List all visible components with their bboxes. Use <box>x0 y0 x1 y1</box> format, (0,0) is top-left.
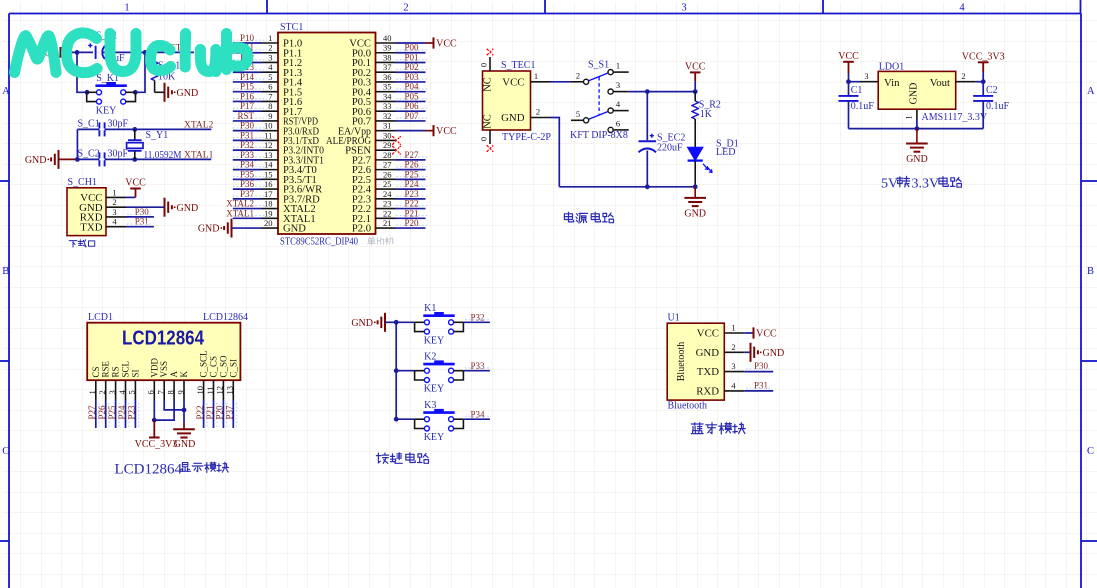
wire net P21 <box>213 400 215 428</box>
svg-text:1: 1 <box>731 323 735 333</box>
ground reset <box>164 83 166 102</box>
junction rail LED <box>693 184 698 189</box>
svg-text:20: 20 <box>264 218 273 228</box>
svg-text:GND: GND <box>177 203 199 214</box>
svg-text:C_CS: C_CS <box>209 356 219 378</box>
svg-text:P2.0: P2.0 <box>352 224 371 235</box>
svg-text:VCC: VCC <box>838 51 859 62</box>
bottom rail power circuit <box>559 186 695 188</box>
wire net P03 <box>396 81 426 83</box>
svg-text:TYPE-C-2P: TYPE-C-2P <box>502 132 551 143</box>
caption bluetooth module <box>691 423 703 434</box>
svg-text:4: 4 <box>959 3 965 14</box>
pin 31 EA/Vpp <box>376 130 396 132</box>
svg-text:P30: P30 <box>135 207 150 217</box>
wire net P10 <box>233 42 262 44</box>
svg-text:A: A <box>169 371 179 378</box>
pin 1 gnd ldo <box>916 109 918 119</box>
svg-text:P22: P22 <box>195 405 205 419</box>
switch contact 6 <box>608 127 613 132</box>
pin 3 wire S_S1 <box>613 91 629 93</box>
svg-text:P10: P10 <box>240 33 255 43</box>
svg-text:35: 35 <box>383 82 392 92</box>
svg-text:KEY: KEY <box>96 105 117 116</box>
svg-text:VCC: VCC <box>697 328 719 340</box>
svg-text:P24: P24 <box>117 405 127 420</box>
svg-text:3: 3 <box>864 71 868 81</box>
svg-text:VCC: VCC <box>685 61 706 72</box>
pin 3 TXD bluetooth <box>724 371 744 373</box>
svg-text:3: 3 <box>681 3 686 14</box>
wire net P02 <box>396 71 426 73</box>
svg-text:33: 33 <box>383 101 392 111</box>
svg-text:Bluetooth: Bluetooth <box>676 342 687 381</box>
svg-text:XTAL2: XTAL2 <box>184 121 214 131</box>
pin 4 P1.3 <box>262 71 279 73</box>
svg-text:P32: P32 <box>240 140 254 150</box>
svg-text:1: 1 <box>534 71 538 81</box>
svg-text:VCC_3V3: VCC_3V3 <box>135 439 178 450</box>
sheet border frame <box>9 13 1081 15</box>
pin 32 P0.7 <box>376 120 396 122</box>
svg-text:P21: P21 <box>205 405 215 419</box>
svg-text:19: 19 <box>264 208 273 218</box>
svg-text:2: 2 <box>112 197 116 207</box>
svg-text:RSE: RSE <box>101 360 111 377</box>
svg-text:30pF: 30pF <box>108 118 129 129</box>
pin 37 P0.2 <box>376 71 396 73</box>
svg-text:P02: P02 <box>405 62 419 72</box>
svg-text:30: 30 <box>383 130 392 140</box>
svg-text:P31: P31 <box>754 380 768 390</box>
svg-text:K1: K1 <box>424 303 436 314</box>
pin 4 wire S_CH1 <box>106 226 126 228</box>
svg-text:S_Y1: S_Y1 <box>146 130 169 141</box>
capacitor C2 0.1uF <box>982 82 984 96</box>
pin 3 wire S_CH1 <box>106 216 126 218</box>
pin 16 P3.6/WR <box>262 188 279 190</box>
svg-text:220uF: 220uF <box>657 143 683 154</box>
module U1 bluetooth body <box>667 323 724 400</box>
push button K1 <box>423 314 454 317</box>
wire xtal1 row <box>77 158 211 160</box>
svg-text:GND: GND <box>501 112 525 124</box>
junction key K2 <box>394 368 399 373</box>
ground power circuit <box>694 187 696 198</box>
wire net P20 <box>222 400 224 428</box>
pin 3 P1.2 <box>262 61 279 63</box>
svg-text:37: 37 <box>383 62 392 72</box>
capacitor S_E1 10uF <box>93 47 98 58</box>
wire K down <box>183 400 185 423</box>
svg-text:P32: P32 <box>471 313 485 323</box>
svg-text:Bluetooth: Bluetooth <box>668 400 707 411</box>
svg-text:P17: P17 <box>240 101 255 111</box>
svg-text:5: 5 <box>268 72 272 82</box>
pin 35 P0.4 <box>376 91 396 93</box>
svg-text:KEY: KEY <box>424 335 445 346</box>
svg-text:3: 3 <box>616 80 620 90</box>
wire VCC to RST <box>61 51 195 53</box>
caption download port <box>69 241 77 248</box>
svg-text:S_C1: S_C1 <box>78 118 100 129</box>
svg-text:1: 1 <box>112 187 116 197</box>
svg-text:3: 3 <box>731 361 735 371</box>
junction rail EC2 <box>645 184 650 189</box>
wire net P05 <box>396 100 426 102</box>
junction xtal1-left <box>75 157 80 162</box>
svg-text:P24: P24 <box>405 179 420 189</box>
svg-text:11: 11 <box>205 386 215 394</box>
crystal S_Y1 11.0592M <box>134 129 136 140</box>
push button K3 <box>423 411 454 414</box>
pin 1 VCC wire typec <box>531 81 551 83</box>
svg-text:3: 3 <box>268 52 272 62</box>
pin 2 GND bluetooth <box>724 351 744 353</box>
svg-text:XTAL1: XTAL1 <box>184 151 214 161</box>
wire net P32 <box>233 149 262 151</box>
wire net P21 <box>396 217 426 219</box>
push button K2 <box>423 363 454 366</box>
push button S_K1 KEY <box>95 84 126 87</box>
wire net P16 <box>233 100 262 102</box>
svg-text:GND: GND <box>684 208 706 219</box>
junction VCC node <box>693 89 698 94</box>
svg-text:S_S1: S_S1 <box>588 60 609 71</box>
svg-text:A: A <box>2 86 10 97</box>
svg-text:2: 2 <box>97 390 107 394</box>
power port VCC bluetooth <box>744 332 753 334</box>
svg-text:0: 0 <box>479 137 489 141</box>
power port VCC pin40 <box>396 42 426 44</box>
switch blade 5-4 <box>588 111 608 119</box>
connector S_TEC1 TYPE-C <box>483 71 531 130</box>
svg-text:B: B <box>1087 266 1094 277</box>
svg-text:0: 0 <box>479 63 489 67</box>
switch contact 2 <box>584 79 589 84</box>
svg-text:RST: RST <box>237 111 254 121</box>
wire net P24 <box>125 400 127 428</box>
svg-text:22: 22 <box>383 208 392 218</box>
wire net P34 <box>233 169 262 171</box>
wire net P31 bt <box>744 390 773 392</box>
junction xtal1 <box>132 157 137 162</box>
svg-text:1K: 1K <box>700 109 713 120</box>
svg-text:P00: P00 <box>405 43 420 53</box>
wire net P25 <box>396 178 426 180</box>
switch contact 1 <box>608 70 613 75</box>
svg-text:P23: P23 <box>127 405 137 420</box>
junction C1 <box>846 79 851 84</box>
svg-text:38: 38 <box>383 52 392 62</box>
pin 26 P2.5 <box>376 178 396 180</box>
svg-text:40: 40 <box>383 33 392 43</box>
svg-text:P37: P37 <box>240 189 255 199</box>
capacitor S_EC2 220uF <box>639 140 657 142</box>
pin 27 P2.6 <box>376 169 396 171</box>
svg-text:P25: P25 <box>405 169 420 179</box>
svg-text:2: 2 <box>403 3 408 14</box>
svg-text:P34: P34 <box>471 410 486 420</box>
rail EC2 <box>646 92 648 141</box>
svg-text:2: 2 <box>731 342 735 352</box>
svg-text:6: 6 <box>268 82 272 92</box>
svg-text:P30: P30 <box>754 361 769 371</box>
wire VDD to vcc3v3 <box>153 400 155 420</box>
svg-text:P04: P04 <box>405 82 420 92</box>
wire net P14 <box>233 81 262 83</box>
svg-text:C_SI: C_SI <box>228 359 238 378</box>
svg-text:24: 24 <box>383 189 392 199</box>
svg-text:1: 1 <box>87 390 97 394</box>
svg-text:28: 28 <box>383 150 392 160</box>
svg-text:P05: P05 <box>405 91 420 101</box>
svg-text:NC: NC <box>483 114 494 129</box>
pin 2 GND wire typec <box>531 117 551 119</box>
svg-text:P37: P37 <box>225 405 235 420</box>
svg-text:C1: C1 <box>851 85 863 96</box>
switch contact 4 <box>608 108 613 113</box>
svg-text:1: 1 <box>124 3 129 14</box>
svg-text:3.3V: 3.3V <box>912 177 940 192</box>
pin 13 P3.3/INT1 <box>262 159 279 161</box>
wire net RST <box>233 120 262 122</box>
svg-text:KFT DIP-8X8: KFT DIP-8X8 <box>570 130 628 141</box>
svg-text:P20: P20 <box>215 405 225 420</box>
wire net P23 <box>396 198 426 200</box>
ground lcd <box>183 423 185 430</box>
svg-text:VCC: VCC <box>502 76 524 88</box>
svg-text:C_SCL: C_SCL <box>199 350 209 377</box>
svg-text:VCC_3V3: VCC_3V3 <box>962 51 1005 62</box>
wire net P23 <box>134 400 136 428</box>
wire vcc to vin <box>849 81 861 83</box>
junction xtal2 <box>132 127 137 132</box>
pin 14 P3.4/T0 <box>262 169 279 171</box>
wire net P37 <box>232 400 234 428</box>
svg-text:P01: P01 <box>405 52 419 62</box>
svg-text:13: 13 <box>264 150 273 160</box>
svg-text:C: C <box>1087 446 1094 457</box>
wire net P22 <box>203 400 205 428</box>
caption MCU chinese <box>368 237 376 245</box>
wire net P06 <box>396 110 426 112</box>
caption key circuit <box>376 453 388 463</box>
junction key K1 <box>394 320 399 325</box>
no-ERC marker pin29 <box>393 146 401 154</box>
wire xtal2 row <box>77 128 211 130</box>
wire net P33 <box>233 159 262 161</box>
wire net P20 <box>396 227 426 229</box>
wire reset key right drop <box>135 52 145 92</box>
svg-text:VCC: VCC <box>125 178 146 189</box>
wire net P13 <box>233 71 262 73</box>
junction VDD <box>152 418 157 423</box>
svg-text:K: K <box>179 371 189 378</box>
op-amp: none; IC U STC1 body <box>278 33 376 235</box>
svg-text:S_TEC1: S_TEC1 <box>501 60 535 71</box>
pin 38 P0.1 <box>376 61 396 63</box>
wire net P26 <box>396 169 426 171</box>
svg-text:LCD1: LCD1 <box>88 312 113 323</box>
stub pin 0 top with no-ERC <box>489 57 491 71</box>
svg-text:25: 25 <box>383 179 392 189</box>
svg-text:VDD: VDD <box>149 358 159 378</box>
svg-text:8: 8 <box>165 390 175 394</box>
key rail <box>395 322 397 419</box>
power VCC_3V3 lcd <box>153 420 155 437</box>
svg-text:P03: P03 <box>405 72 420 82</box>
pin 12 P3.2/INT0 <box>262 149 279 151</box>
svg-text:15: 15 <box>264 169 273 179</box>
svg-text:KEY: KEY <box>424 432 445 443</box>
pin 10 P3.0/RxD <box>262 130 279 132</box>
pin 15 P3.5/T1 <box>262 178 279 180</box>
svg-text:1: 1 <box>904 115 914 119</box>
svg-text:P27: P27 <box>87 405 97 420</box>
wire K3 out <box>464 418 490 420</box>
svg-text:NC: NC <box>483 77 494 92</box>
svg-text:2: 2 <box>536 107 540 117</box>
junction node reset-left <box>75 50 80 55</box>
ground MCU pin20 <box>231 219 233 238</box>
junction key K3 <box>394 417 399 422</box>
pin 28 P2.7 <box>376 159 396 161</box>
junction gnd ams <box>915 126 920 131</box>
wire net P31 <box>233 139 262 141</box>
pin 1 wire S_S1 <box>613 71 629 73</box>
pin 22 P2.1 <box>376 217 396 219</box>
power port VCC pin31 EA <box>396 130 426 132</box>
svg-text:B: B <box>2 266 9 277</box>
pin 6 wire S_S1 <box>613 129 629 131</box>
pin 17 P3.7/RD <box>262 198 279 200</box>
bottom rail ams <box>849 128 984 130</box>
svg-text:18: 18 <box>264 199 273 209</box>
switch contact 5 <box>584 118 589 123</box>
wire net XTAL1 <box>233 217 262 219</box>
svg-text:VCC: VCC <box>756 328 777 339</box>
svg-text:GND: GND <box>763 348 785 359</box>
wire net P12 <box>233 61 262 63</box>
pin 1 P1.0 <box>262 42 279 44</box>
svg-text:GND: GND <box>25 155 47 166</box>
svg-text:34: 34 <box>383 91 392 101</box>
svg-text:P27: P27 <box>405 150 420 160</box>
pin 11 P3.1/TxD <box>262 139 279 141</box>
svg-text:GND: GND <box>283 224 306 235</box>
svg-text:A: A <box>1087 86 1095 97</box>
svg-text:29: 29 <box>383 140 392 150</box>
svg-text:LCD12864: LCD12864 <box>122 328 205 350</box>
junction node reset-right <box>143 50 148 55</box>
svg-text:P23: P23 <box>405 189 420 199</box>
svg-text:6: 6 <box>146 390 156 394</box>
svg-text:0.1uF: 0.1uF <box>851 101 875 112</box>
svg-text:9: 9 <box>268 111 272 121</box>
svg-text:XTAL1: XTAL1 <box>226 208 254 218</box>
pin 1 wire S_CH1 <box>106 196 126 198</box>
stub pin 0 bottom with no-ERC <box>489 130 491 144</box>
svg-text:CS: CS <box>91 366 101 377</box>
pin 33 P0.6 <box>376 110 396 112</box>
svg-text:13: 13 <box>225 386 235 395</box>
wire to K3 <box>396 418 414 420</box>
svg-text:6: 6 <box>616 119 620 129</box>
svg-text:P06: P06 <box>405 101 420 111</box>
regulator LDO1 AMS1117 <box>878 71 956 109</box>
wire net P22 <box>396 208 426 210</box>
pin 5 wire S_S1 <box>571 119 584 121</box>
ground ams <box>916 129 918 144</box>
wire to K2 <box>396 370 414 372</box>
wire net P24 <box>396 188 426 190</box>
display LCD1 body <box>87 323 240 381</box>
pin 29 PSEN <box>376 149 396 151</box>
svg-text:P26: P26 <box>97 405 107 420</box>
junction switch out <box>645 89 650 94</box>
svg-text:1: 1 <box>616 61 620 71</box>
ground bluetooth <box>744 351 750 353</box>
svg-text:2: 2 <box>576 70 580 80</box>
pin 2 vout wire <box>956 81 976 83</box>
wire reset key left drop <box>77 52 87 92</box>
svg-text:RS: RS <box>111 366 121 377</box>
wire net P30 <box>233 130 262 132</box>
svg-text:11.0592M: 11.0592M <box>144 150 182 161</box>
wire net P00 <box>396 52 426 54</box>
svg-text:8: 8 <box>268 101 272 111</box>
pin 21 P2.0 <box>376 227 396 229</box>
svg-text:16: 16 <box>264 179 273 189</box>
svg-text:39: 39 <box>383 43 392 53</box>
svg-text:5: 5 <box>127 390 137 394</box>
svg-text:P36: P36 <box>240 179 255 189</box>
svg-text:C_SO: C_SO <box>218 355 228 378</box>
pin 30 ALE/PROG <box>376 139 396 141</box>
pin 1 VCC bluetooth <box>724 332 744 334</box>
capacitor S_C2 30pF <box>98 152 100 166</box>
svg-text:P34: P34 <box>240 160 255 170</box>
junction key-left <box>85 90 90 95</box>
svg-text:LCD12864: LCD12864 <box>203 312 248 323</box>
LED S_D1 <box>688 147 703 160</box>
svg-text:3: 3 <box>112 207 116 217</box>
svg-text:P20: P20 <box>405 218 420 228</box>
capacitor C1 0.1uF <box>848 82 850 96</box>
junction K <box>182 408 187 413</box>
svg-text:U1: U1 <box>668 312 680 323</box>
pin 23 P2.2 <box>376 208 396 210</box>
pin 8 P1.7 <box>262 110 279 112</box>
svg-text:11: 11 <box>264 130 272 140</box>
border zone ticks right <box>1081 180 1097 182</box>
svg-text:7: 7 <box>268 91 272 101</box>
capacitor S_C1 30pF <box>98 122 100 136</box>
svg-text:1: 1 <box>268 33 272 43</box>
svg-text:GND: GND <box>174 439 196 450</box>
svg-text:2: 2 <box>961 71 965 81</box>
wire net P30 bt <box>744 371 773 373</box>
svg-text:C2: C2 <box>986 85 998 96</box>
svg-text:21: 21 <box>383 218 392 228</box>
wire net P27 <box>396 159 426 161</box>
svg-text:27: 27 <box>383 160 392 170</box>
pin 18 XTAL2 <box>262 208 279 210</box>
wire K2 out <box>464 370 490 372</box>
svg-text:0.1uF: 0.1uF <box>986 101 1010 112</box>
wire net P27 <box>95 400 97 428</box>
